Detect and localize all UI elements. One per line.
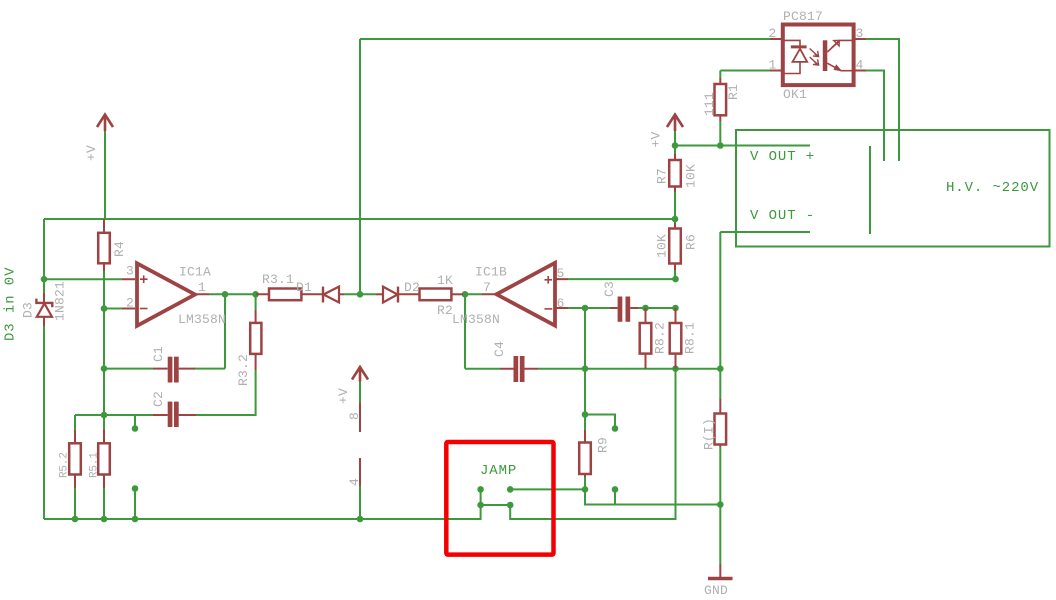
svg-text:R6: R6	[684, 234, 699, 250]
node R8.1 top	[672, 305, 679, 312]
svg-text:C4: C4	[492, 341, 507, 357]
wire C1 right	[194, 368, 225, 370]
HV box	[736, 130, 1050, 247]
wire pin3 opto stub	[852, 38, 866, 40]
wire opamp pwr lower	[359, 486, 361, 519]
svg-text:1N821: 1N821	[53, 281, 68, 321]
diode D2	[383, 287, 398, 303]
wire pin2 IC1A	[104, 308, 122, 310]
svg-text:111: 111	[702, 92, 717, 116]
svg-text:1: 1	[198, 280, 206, 295]
wire R3.1 leads	[256, 293, 323, 295]
resistor R7 body	[669, 160, 681, 187]
wire R5.1 leads	[103, 429, 105, 488]
wire bottom rail with jamp bracket	[44, 369, 676, 519]
wire +V1 tail	[104, 131, 106, 219]
node jamp b	[507, 486, 514, 493]
wire D3 top lead	[43, 293, 45, 302]
svg-text:R2: R2	[437, 303, 453, 318]
wire R5 green stubs	[75, 415, 104, 519]
wire stub x135 lower	[134, 489, 136, 520]
node rail R5.2	[72, 516, 79, 523]
resistor R8.2 body	[640, 323, 652, 354]
opto emitter	[827, 63, 853, 70]
wire pin6 row left	[568, 307, 610, 309]
svg-text:R3.2: R3.2	[236, 354, 251, 386]
wire feedback y219	[44, 218, 675, 220]
wire to gnd row	[585, 489, 720, 504]
wire to gnd	[719, 505, 721, 565]
plus mark IC1A	[140, 275, 148, 283]
wire D2 lead	[376, 293, 383, 295]
wire R4 bottom	[103, 270, 105, 309]
wire C4 left	[465, 368, 500, 370]
wire pin6 row right	[638, 307, 676, 309]
wire RI top	[719, 369, 721, 399]
wire RI bottom	[719, 447, 721, 505]
wire +V3 tail	[674, 131, 676, 146]
wire pin2 opto stub	[770, 38, 784, 40]
capacitor C4	[514, 356, 525, 382]
node jamp c	[477, 502, 484, 509]
resistor R2 body	[420, 289, 452, 301]
wire pin2 feed top	[360, 38, 770, 40]
svg-text:6: 6	[557, 296, 565, 311]
wire R9 leads	[584, 430, 586, 477]
node R7 R6	[672, 216, 679, 223]
svg-text:C2: C2	[151, 391, 166, 407]
op-amp U1 IC1A triangle	[137, 263, 195, 326]
wire y415 row	[75, 414, 153, 416]
resistor R5.2 body	[69, 443, 81, 474]
wire R6 top	[674, 219, 676, 223]
opto collector	[827, 40, 853, 52]
svg-text:3: 3	[126, 264, 134, 279]
wire RI leads	[719, 399, 721, 447]
resistor R9 body	[579, 443, 591, 475]
node D1 D2	[357, 291, 364, 298]
svg-text:IC1A: IC1A	[179, 265, 211, 280]
minus mark IC1A	[140, 308, 148, 310]
svg-text:2: 2	[769, 26, 777, 41]
wire pin3 out	[866, 39, 899, 161]
minus mark IC1B	[545, 308, 553, 310]
svg-text:LM358N: LM358N	[452, 312, 500, 327]
wire pin4 out	[866, 71, 884, 162]
node y368 x720	[717, 365, 724, 372]
wire R4 bottom lead	[103, 263, 105, 271]
node stub615 upper	[612, 425, 619, 432]
wire vout+ row	[675, 145, 810, 147]
wire opamp pwr upper	[359, 382, 361, 404]
svg-text:C3: C3	[602, 281, 617, 297]
wire R3.2 bottom lead	[255, 354, 257, 370]
svg-text:R4: R4	[112, 241, 127, 257]
diode D1	[322, 287, 324, 303]
svg-text:1K: 1K	[437, 273, 453, 288]
wire x104 vertical	[103, 309, 105, 430]
svg-text:+V: +V	[649, 131, 664, 147]
node +V3 vout+	[672, 142, 679, 149]
wire R9 bottom row	[510, 488, 585, 490]
node R1 vout+	[717, 142, 724, 149]
wire gnd lead	[719, 564, 721, 578]
wire R2 to IC1B	[463, 293, 482, 295]
svg-text:D2: D2	[404, 280, 420, 295]
svg-text:3: 3	[856, 26, 864, 41]
wire R5.2 leads	[74, 430, 76, 488]
svg-text:4: 4	[856, 58, 864, 73]
wire D1 lead	[339, 293, 344, 295]
wire stub x135 upper	[134, 415, 136, 429]
wire R4 top lead	[103, 219, 105, 233]
wire vertical x360	[359, 39, 361, 294]
resistor R1 body	[715, 84, 727, 115]
opto LED wiring	[784, 40, 800, 73]
svg-text:R9: R9	[596, 437, 611, 453]
wire D2-R2 lead	[398, 293, 420, 295]
opto OK1 box	[783, 25, 854, 86]
wire R6 bottom	[674, 270, 676, 279]
svg-text:R3.1: R3.1	[262, 272, 294, 287]
node pin3 left	[41, 276, 48, 283]
wire R3.2 top lead	[255, 310, 257, 323]
svg-text:OK1: OK1	[783, 87, 807, 102]
node rail R5.1	[101, 516, 108, 523]
node rail pwr	[357, 516, 364, 523]
wire pin8 stub	[359, 403, 361, 432]
wire R7 bottom	[674, 192, 676, 219]
wire C1 leads	[153, 368, 195, 370]
node stub135 upper	[132, 425, 139, 432]
op-amp U2 IC1B triangle	[497, 263, 556, 326]
wire D1 D2 node	[344, 293, 376, 295]
node R2 IC1B	[462, 291, 469, 298]
svg-text:R(I): R(I)	[702, 418, 717, 450]
wire left rail lower	[43, 325, 45, 520]
wire R8.1 leads	[675, 308, 677, 369]
wire x465 down	[464, 294, 466, 368]
wire R1 bottom	[719, 121, 721, 146]
node pin2 R4	[101, 305, 108, 312]
svg-text:D1: D1	[296, 280, 312, 295]
svg-text:JAMP: JAMP	[480, 463, 517, 479]
wire out node IC1A	[209, 293, 256, 295]
svg-text:7: 7	[483, 280, 491, 295]
node C2	[101, 412, 108, 419]
highlight box JAMP	[446, 442, 553, 555]
svg-text:PC817: PC817	[783, 9, 823, 24]
svg-text:4: 4	[347, 478, 362, 486]
svg-text:R5.2: R5.2	[59, 452, 71, 478]
svg-text:+V: +V	[84, 145, 99, 161]
wire x585 vertical	[584, 308, 586, 430]
diode D3 zener	[36, 299, 52, 308]
capacitor C1	[168, 357, 179, 383]
resistor R6 body	[669, 229, 681, 264]
node pin6 x585	[582, 305, 589, 312]
opto LED cathode bar	[791, 45, 807, 48]
+V symbol right	[667, 115, 683, 132]
svg-text:GND: GND	[704, 583, 728, 598]
resistor R8.1 body	[670, 323, 682, 354]
resistor R4 body	[98, 233, 110, 263]
wire pin5 row	[568, 278, 676, 280]
wire C1 left	[104, 368, 153, 370]
wire left rail upper	[43, 219, 45, 296]
node R8.2 top	[642, 305, 649, 312]
node stub135 lower	[132, 485, 139, 492]
svg-text:10K: 10K	[684, 164, 699, 188]
wire C4 right / y368 row	[538, 368, 720, 370]
HV inner bar	[869, 146, 871, 234]
wire R9 top stub	[585, 415, 615, 429]
wire D3 bottom lead	[43, 317, 45, 327]
node C1 left	[101, 365, 108, 372]
svg-text:IC1B: IC1B	[475, 265, 507, 280]
wire pin3 IC1A	[44, 278, 122, 280]
svg-text:R1: R1	[726, 84, 741, 100]
svg-text:5: 5	[557, 266, 565, 281]
svg-text:R7: R7	[655, 168, 670, 184]
svg-text:V OUT +: V OUT +	[750, 149, 815, 165]
wire vout- down	[719, 232, 721, 369]
svg-text:D3: D3	[21, 302, 36, 318]
wire pin1 opto stub	[770, 70, 784, 72]
svg-text:R8.2: R8.2	[653, 322, 668, 354]
opto LED triangle	[793, 49, 808, 62]
+V symbol left	[97, 115, 113, 132]
wire C3 leads	[610, 307, 638, 309]
capacitor C3	[618, 297, 631, 322]
node rail x135	[132, 516, 139, 523]
node y368 x675	[672, 365, 679, 372]
svg-text:10K: 10K	[655, 234, 670, 258]
svg-text:R5.1: R5.1	[89, 452, 101, 478]
resistor R3.2 body	[250, 323, 261, 354]
wire pin4 stub	[359, 458, 361, 486]
resistor RI body	[715, 414, 727, 445]
wire vout- row	[720, 231, 810, 233]
resistor R3.1 body	[269, 289, 301, 301]
wire jamp left pair	[480, 489, 482, 505]
svg-text:8: 8	[347, 412, 362, 420]
node gnd row	[717, 501, 724, 508]
node R9 bottom	[582, 486, 589, 493]
wire R8.2 leads	[645, 308, 647, 369]
opto light arrows	[810, 49, 819, 66]
node stub615 lower	[612, 486, 619, 493]
plus mark IC1B	[545, 276, 553, 284]
node jamp a	[477, 486, 484, 493]
svg-text:2: 2	[126, 296, 134, 311]
opto collector arrow	[832, 40, 840, 47]
wire C2 leads	[153, 414, 196, 416]
svg-text:1: 1	[769, 58, 777, 73]
svg-text:LM358N: LM358N	[178, 312, 226, 327]
ground symbol	[708, 577, 733, 581]
wire R7 top	[674, 146, 676, 155]
wire R7 leads	[674, 154, 676, 192]
wire R2 right lead	[451, 293, 463, 295]
svg-text:R8.1: R8.1	[683, 322, 698, 354]
node jamp d	[507, 502, 514, 509]
wire C4 leads	[500, 368, 538, 370]
node R9 top	[582, 411, 589, 418]
wire R1 leads	[719, 78, 721, 121]
wire R1 top	[719, 71, 721, 79]
svg-text:H.V. ~220V: H.V. ~220V	[946, 180, 1039, 196]
node y368 x585	[582, 365, 589, 372]
wire stub below dot 615	[614, 489, 616, 504]
wire R9 bottom	[584, 477, 586, 489]
svg-text:D3 in 0V: D3 in 0V	[3, 267, 19, 341]
node out C1	[222, 291, 229, 298]
capacitor C2	[168, 402, 179, 427]
node out R3.2	[252, 291, 259, 298]
svg-text:V OUT -: V OUT -	[750, 208, 815, 224]
opto transistor bar	[823, 40, 828, 71]
wire C1 up to out node	[224, 294, 226, 368]
wire IC1A stubs	[122, 279, 209, 308]
node pin5 R6	[672, 276, 679, 283]
svg-text:+V: +V	[336, 388, 351, 404]
wire R3.2 green	[196, 294, 256, 415]
+V symbol mid	[352, 367, 368, 382]
wire IC1B stubs	[482, 279, 568, 308]
svg-text:C1: C1	[151, 346, 166, 362]
wire pin4 opto stub	[852, 70, 866, 72]
wire R6 leads	[674, 223, 676, 270]
resistor R5.1 body	[98, 443, 110, 474]
wire pin1 row	[720, 70, 770, 72]
